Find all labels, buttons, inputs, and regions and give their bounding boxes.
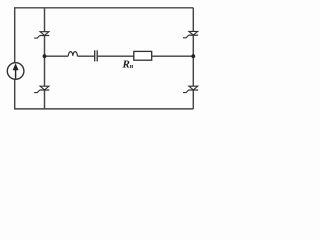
current source I (7, 63, 24, 80)
wire: outer loop (top, left, bottom rails) (15, 8, 194, 109)
wire: middle branch between C and R (97, 55, 134, 57)
node: left mid junction (43, 54, 47, 58)
thyristor VS2 (top right) (183, 31, 198, 37)
inductor L (68, 52, 77, 57)
svg-text:н: н (130, 64, 134, 70)
wire: right rail (192, 8, 194, 109)
svg-text:R: R (122, 58, 130, 70)
thyristor VS1 (top left) (34, 32, 49, 38)
wire: middle branch right segment (152, 55, 194, 57)
capacitor C (95, 50, 98, 61)
wire: middle branch between L and C (77, 55, 94, 57)
resistor Rn (load) (134, 51, 152, 60)
thyristor VS3 (bottom left) (34, 86, 49, 92)
wire: left bridge branch vertical (44, 8, 46, 109)
thyristor VS4 (bottom right) (183, 86, 198, 92)
node: right mid junction (191, 54, 195, 58)
wire: middle branch left segment (45, 55, 69, 57)
